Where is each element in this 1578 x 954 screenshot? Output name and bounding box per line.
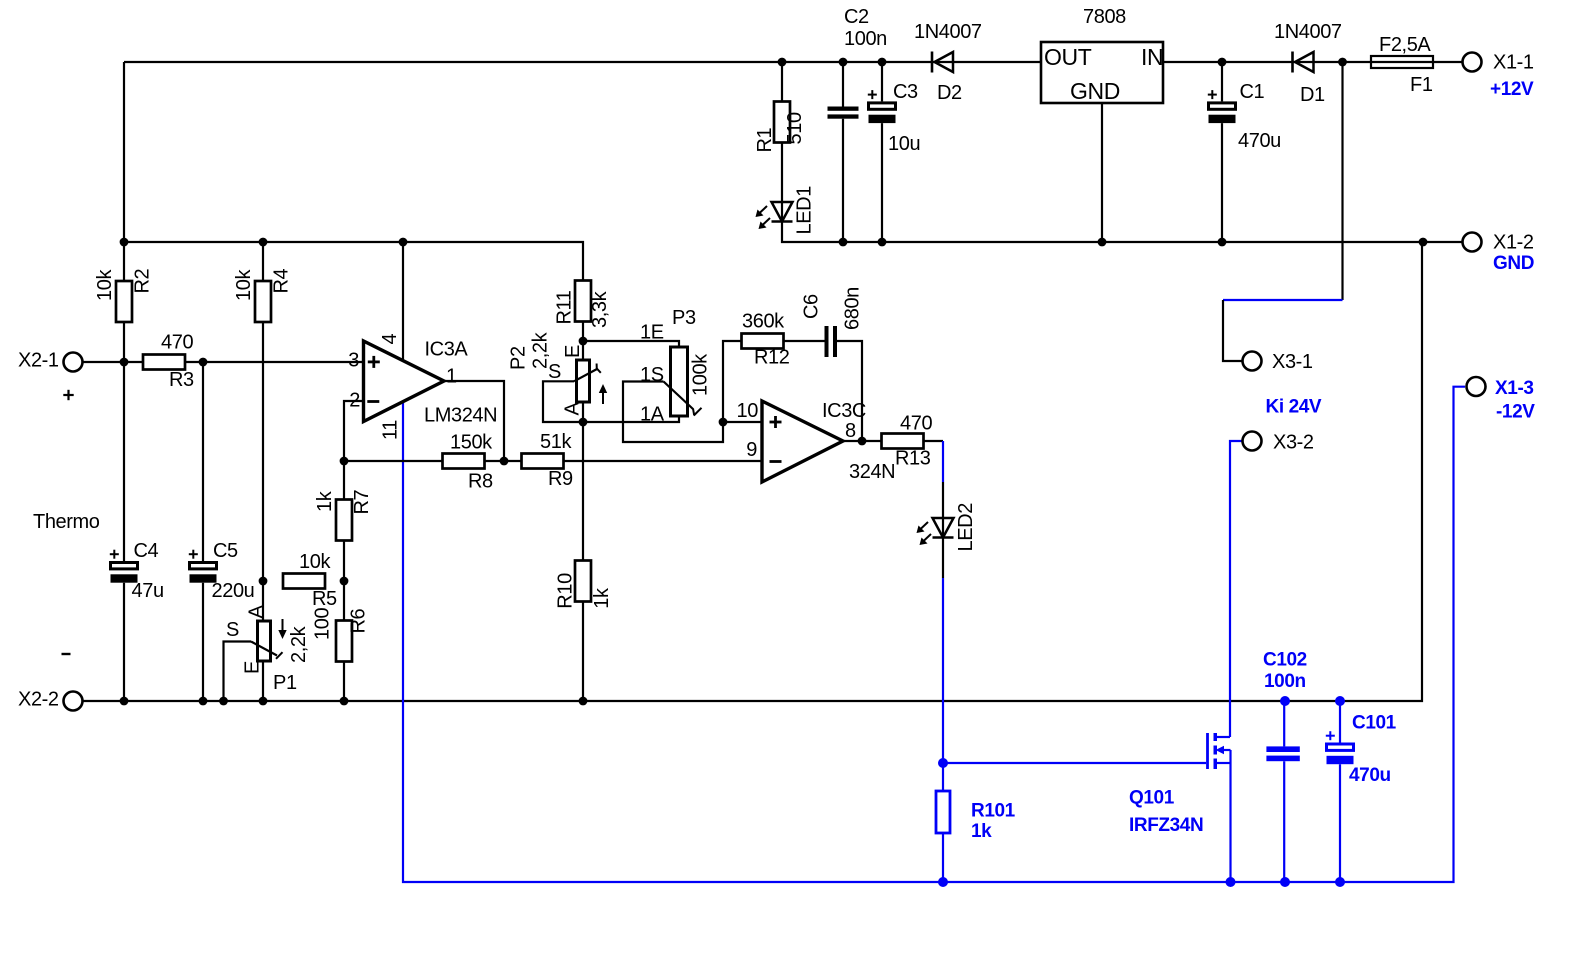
svg-text:E: E — [242, 661, 264, 674]
svg-text:324N: 324N — [849, 461, 895, 483]
svg-text:X1-2: X1-2 — [1493, 232, 1534, 254]
svg-text:220u: 220u — [212, 580, 255, 602]
svg-text:R13: R13 — [895, 448, 931, 470]
svg-text:R4: R4 — [271, 268, 293, 293]
svg-text:F1: F1 — [1410, 74, 1433, 96]
svg-text:LM324N: LM324N — [424, 405, 497, 427]
svg-text:C101: C101 — [1352, 713, 1397, 734]
svg-text:OUT: OUT — [1044, 44, 1092, 70]
svg-text:R6: R6 — [348, 608, 370, 633]
svg-text:3: 3 — [348, 350, 359, 372]
svg-text:X1-3: X1-3 — [1495, 378, 1534, 399]
svg-text:3,3k: 3,3k — [589, 290, 611, 328]
svg-text:C4: C4 — [134, 540, 159, 562]
svg-text:4: 4 — [379, 334, 401, 345]
svg-text:47u: 47u — [132, 580, 164, 602]
svg-text:R9: R9 — [548, 468, 573, 490]
svg-text:C1: C1 — [1240, 81, 1265, 103]
svg-text:7808: 7808 — [1083, 6, 1126, 28]
svg-text:470: 470 — [900, 413, 932, 435]
svg-text:Thermo: Thermo — [33, 511, 100, 533]
svg-text:R12: R12 — [754, 347, 790, 369]
svg-text:51k: 51k — [540, 431, 572, 453]
svg-text:10k: 10k — [233, 269, 255, 301]
svg-text:R7: R7 — [351, 489, 373, 514]
svg-text:9: 9 — [746, 439, 757, 461]
svg-text:P2: P2 — [508, 346, 530, 370]
svg-text:GND: GND — [1070, 78, 1120, 104]
svg-text:1N4007: 1N4007 — [1274, 21, 1342, 43]
svg-text:IRFZ34N: IRFZ34N — [1129, 815, 1203, 836]
svg-text:100: 100 — [312, 608, 334, 640]
svg-text:R2: R2 — [132, 268, 154, 293]
svg-text:510: 510 — [784, 112, 806, 144]
svg-text:1k: 1k — [591, 587, 613, 609]
svg-text:R8: R8 — [468, 471, 493, 493]
svg-text:150k: 150k — [450, 432, 493, 454]
svg-text:1A: 1A — [640, 404, 665, 426]
svg-text:10: 10 — [737, 400, 759, 422]
svg-text:C2: C2 — [844, 6, 869, 28]
svg-text:R11: R11 — [554, 290, 576, 324]
svg-text:1E: 1E — [640, 322, 664, 344]
svg-text:11: 11 — [380, 420, 402, 440]
svg-text:LED2: LED2 — [955, 503, 977, 552]
svg-text:2,2k: 2,2k — [288, 625, 310, 663]
svg-text:X2-1: X2-1 — [18, 350, 59, 372]
svg-text:100n: 100n — [1264, 671, 1306, 692]
svg-text:10u: 10u — [888, 133, 920, 155]
svg-text:D1: D1 — [1300, 84, 1325, 106]
svg-text:100k: 100k — [690, 353, 712, 396]
svg-text:10k: 10k — [94, 269, 116, 301]
svg-text:A: A — [562, 402, 584, 416]
svg-text:10k: 10k — [299, 551, 331, 573]
svg-text:IC3A: IC3A — [425, 339, 469, 361]
svg-text:1k: 1k — [314, 490, 336, 512]
svg-text:R5: R5 — [312, 588, 337, 610]
svg-text:680n: 680n — [842, 287, 864, 330]
svg-text:E: E — [562, 345, 584, 358]
svg-text:470u: 470u — [1238, 130, 1281, 152]
svg-text:1S: 1S — [640, 364, 664, 386]
svg-text:1k: 1k — [971, 821, 992, 842]
svg-text:X3-1: X3-1 — [1272, 351, 1313, 373]
svg-text:P3: P3 — [672, 307, 696, 329]
svg-text:100n: 100n — [844, 28, 887, 50]
svg-text:R3: R3 — [169, 369, 194, 391]
svg-text:LED1: LED1 — [794, 186, 816, 235]
svg-text:P1: P1 — [273, 672, 297, 694]
svg-text:R1: R1 — [754, 127, 776, 152]
svg-text:2: 2 — [349, 390, 360, 412]
svg-text:+12V: +12V — [1490, 79, 1534, 100]
svg-text:IC3C: IC3C — [822, 400, 866, 422]
svg-text:X1-1: X1-1 — [1493, 52, 1534, 74]
svg-text:1N4007: 1N4007 — [914, 21, 982, 43]
svg-text:S: S — [226, 619, 239, 641]
svg-text:F2,5A: F2,5A — [1379, 34, 1431, 56]
svg-text:C3: C3 — [893, 81, 918, 103]
svg-text:360k: 360k — [742, 311, 785, 333]
svg-text:C5: C5 — [213, 540, 238, 562]
svg-text:X3-2: X3-2 — [1273, 432, 1314, 454]
svg-text:GND: GND — [1493, 253, 1534, 274]
svg-text:S: S — [548, 361, 561, 383]
svg-text:Ki 24V: Ki 24V — [1266, 397, 1322, 418]
svg-text:X2-2: X2-2 — [18, 689, 59, 711]
svg-text:R101: R101 — [971, 801, 1016, 822]
svg-text:IN: IN — [1141, 44, 1163, 70]
svg-text:C6: C6 — [801, 294, 823, 319]
svg-text:A: A — [246, 605, 268, 619]
svg-text:8: 8 — [845, 420, 856, 442]
svg-text:Q101: Q101 — [1129, 788, 1175, 809]
svg-text:1: 1 — [446, 366, 457, 388]
svg-text:-12V: -12V — [1496, 402, 1535, 423]
svg-text:470u: 470u — [1349, 765, 1391, 786]
svg-text:470: 470 — [161, 332, 193, 354]
svg-text:C102: C102 — [1263, 650, 1307, 671]
svg-text:R10: R10 — [555, 573, 577, 609]
svg-text:D2: D2 — [937, 82, 962, 104]
